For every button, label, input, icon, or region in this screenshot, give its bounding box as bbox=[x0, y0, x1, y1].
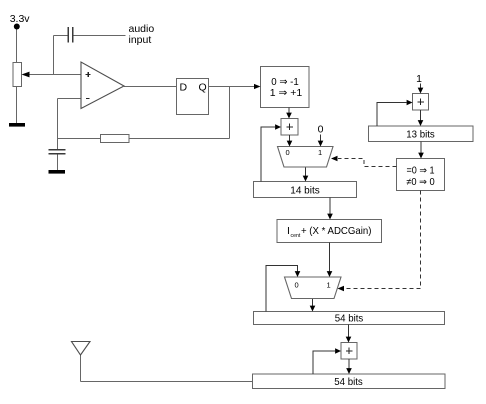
ground G2 bar bbox=[49, 170, 66, 174]
svg-text:3.3v: 3.3v bbox=[10, 13, 31, 25]
wire potentiometer bottom to ground bbox=[16, 87, 18, 124]
arrowhead 13 bits into compare box bbox=[418, 153, 424, 159]
adder A1 plus bbox=[286, 124, 293, 131]
wire antenna to 54 bits box 2 bbox=[81, 381, 253, 383]
slanted outlines bbox=[72, 62, 342, 355]
wire resistor R2 to feedback tap bbox=[129, 138, 230, 140]
svg-text:=0 ⇒ 1: =0 ⇒ 1 bbox=[407, 166, 435, 177]
mux M1 trapezoid bbox=[278, 147, 334, 168]
wire feedback tap up to Q output bbox=[229, 87, 231, 139]
adder A2 box bbox=[341, 343, 357, 360]
op-amp U1 triangle bbox=[81, 62, 124, 109]
svg-text:Q: Q bbox=[199, 82, 207, 94]
wire compare box to mux M2 select (dashed) bbox=[345, 191, 421, 289]
wire compare box to mux M1 select (dashed) bbox=[338, 159, 397, 167]
wire adder A3 to 13 bits bbox=[420, 110, 422, 121]
wire 54-bit feedback to mux M2 input 0 bbox=[266, 266, 298, 312]
adder A1 box bbox=[281, 119, 298, 136]
wire 13 bits to compare box bbox=[420, 142, 422, 154]
arrowhead feedback into adder A2 bbox=[335, 348, 341, 354]
arrowhead dashed into mux M1 bbox=[331, 156, 338, 162]
arrowhead formula into mux M2 bbox=[327, 271, 333, 277]
svg-text:54 bits: 54 bits bbox=[334, 376, 363, 388]
arrowhead wiper into R1 bbox=[22, 72, 30, 78]
wire cap left lead bbox=[54, 35, 69, 37]
svg-text:1 ⇒ +1: 1 ⇒ +1 bbox=[270, 87, 303, 99]
svg-text:0: 0 bbox=[295, 281, 299, 290]
resistor R2 body bbox=[101, 135, 130, 143]
arrowhead into decode box bbox=[254, 84, 261, 89]
svg-text:I: I bbox=[287, 225, 290, 237]
wire antenna down lead bbox=[80, 355, 82, 382]
ground G1 bar bbox=[9, 123, 25, 127]
arrowheads bbox=[9, 24, 424, 375]
wire mux M1 to 14 bits bbox=[305, 167, 307, 176]
wire mux M2 to 54 bits 1 bbox=[312, 299, 314, 307]
wire 13-bit feedback to adder A3 bbox=[377, 103, 407, 127]
register 14 bits box bbox=[254, 182, 357, 198]
svg-text:0 ⇒ -1: 0 ⇒ -1 bbox=[271, 76, 299, 88]
wire - input down to feedback node bbox=[57, 99, 59, 139]
decode box 0=>-1 1=>+1 bbox=[261, 67, 310, 108]
arrowhead into formula box bbox=[327, 214, 333, 220]
compare box =0=>1 bbox=[397, 159, 445, 191]
wire decode to adder A1 bbox=[288, 108, 290, 114]
wire adder A2 to 54 bits 2 bbox=[348, 359, 350, 369]
dashed control wires bbox=[338, 159, 421, 289]
arrow shafts (darker) bbox=[261, 84, 421, 375]
potentiometer R1 body bbox=[13, 63, 22, 87]
antenna ANT1 bbox=[72, 342, 91, 356]
svg-text:1: 1 bbox=[327, 281, 331, 290]
arrowhead constant 0 into mux M1 bbox=[318, 141, 324, 147]
wire feedback node to resistor R2 bbox=[58, 138, 101, 140]
wire 14 bits to formula box bbox=[329, 198, 331, 215]
arrowhead A1 into mux M1 bbox=[287, 141, 293, 147]
arrowhead decode into adder A1 bbox=[286, 113, 292, 119]
wire op-amp - input bbox=[58, 98, 82, 100]
wire 54-bit-2 feedback to adder A2 bbox=[313, 351, 335, 374]
arrowhead dashed into mux M2 bbox=[338, 286, 345, 292]
arrowhead into adder A2 bbox=[346, 337, 352, 343]
svg-text:14 bits: 14 bits bbox=[290, 185, 320, 197]
arrowhead feedback into adder A3 bbox=[407, 100, 413, 106]
wire + input junction up to coupling cap bbox=[53, 36, 55, 75]
svg-text:1: 1 bbox=[318, 148, 322, 157]
wire cap right lead to audio input bbox=[74, 35, 126, 37]
arrowhead A3 into 13 bits bbox=[418, 120, 424, 126]
wire feedback node down to cap C2 bbox=[57, 139, 59, 151]
wire wiper to op-amp + input bbox=[28, 74, 81, 76]
svg-text:cent: cent bbox=[291, 233, 301, 239]
svg-text:13 bits: 13 bits bbox=[406, 129, 435, 141]
wire constant 1 to adder A3 bbox=[420, 84, 422, 89]
wire flip-flop Q to decode box bbox=[209, 86, 256, 88]
wire formula box to mux M2 input 1 bbox=[329, 243, 331, 272]
register 13 bits box bbox=[369, 126, 474, 142]
mux M2 trapezoid bbox=[285, 277, 342, 299]
wire 14-bit feedback to adder A1 bbox=[261, 127, 275, 182]
svg-text:1: 1 bbox=[416, 73, 422, 85]
arrowhead feedback into adder A1 bbox=[275, 124, 281, 130]
wire adder A1 to mux M1 input 0 bbox=[289, 135, 291, 141]
capacitor C1 plates bbox=[68, 27, 72, 43]
mux port labels bbox=[286, 148, 331, 290]
register 54 bits box 2 bbox=[253, 374, 446, 389]
wire cap C2 to ground bbox=[57, 155, 59, 171]
arrowhead A2 into 54 bits 2 bbox=[346, 368, 352, 374]
arrowhead mux M2 into 54 bits 1 bbox=[310, 306, 316, 312]
adder A2 plus bbox=[346, 348, 353, 355]
wire op-amp output to flip-flop D bbox=[124, 86, 177, 88]
wire 54 bits 1 to adder A2 bbox=[348, 325, 350, 338]
capacitor C2 plates bbox=[49, 150, 66, 154]
svg-text:0: 0 bbox=[318, 124, 324, 136]
formula box bbox=[277, 220, 382, 243]
adder A3 plus bbox=[417, 99, 424, 106]
node dot 3.3v bbox=[14, 24, 20, 30]
svg-text:input: input bbox=[129, 34, 152, 46]
arrowhead mux M1 into 14 bits bbox=[303, 176, 309, 182]
arrowhead constant 1 into adder A3 bbox=[418, 88, 424, 94]
arrowhead feedback into mux M2 bbox=[295, 271, 301, 277]
register 54 bits box 1 bbox=[254, 312, 445, 325]
svg-text:+ (X * ADCGain): + (X * ADCGain) bbox=[301, 225, 372, 237]
svg-text:54 bits: 54 bits bbox=[335, 313, 364, 325]
svg-text:0: 0 bbox=[286, 148, 290, 157]
wire 3.3v supply down to potentiometer bbox=[16, 28, 18, 63]
svg-text:D: D bbox=[180, 82, 188, 94]
op-amp U1 plus/minus marks bbox=[86, 72, 91, 99]
adder A3 box bbox=[413, 94, 429, 111]
flip-flop U2 box bbox=[177, 79, 209, 115]
wire constant 0 to mux M1 input 1 bbox=[320, 135, 322, 142]
svg-text:≠0 ⇒ 0: ≠0 ⇒ 0 bbox=[406, 177, 435, 188]
